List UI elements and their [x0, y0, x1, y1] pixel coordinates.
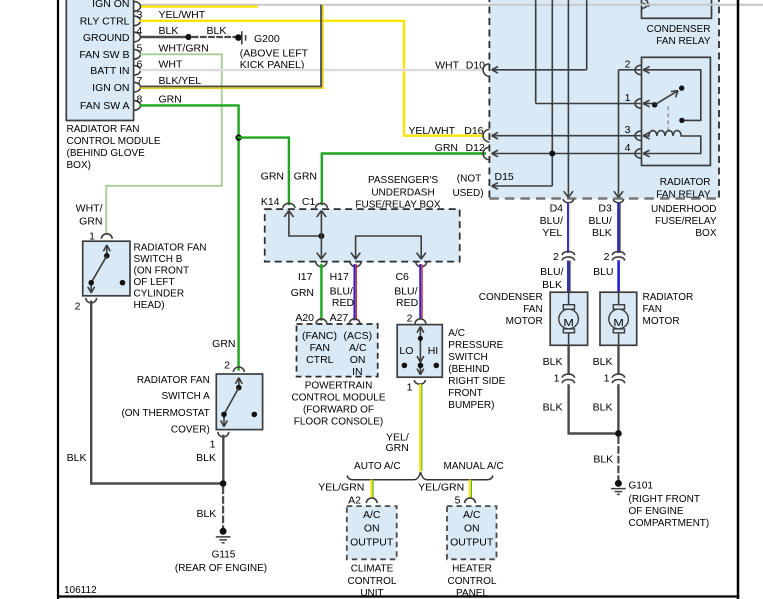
svg-text:CTRL: CTRL — [306, 354, 334, 366]
svg-text:YEL/WHT: YEL/WHT — [408, 125, 455, 137]
svg-text:FAN SW A: FAN SW A — [80, 100, 130, 112]
svg-text:BLU/: BLU/ — [540, 215, 563, 227]
svg-text:CONTROL MODULE: CONTROL MODULE — [291, 392, 385, 403]
svg-text:C1: C1 — [302, 196, 316, 208]
svg-text:RADIATOR FAN: RADIATOR FAN — [134, 243, 207, 254]
svg-text:BLK: BLK — [196, 452, 216, 464]
wire BLU/YEL D4 — [569, 204, 571, 252]
wire BLK dashed to G200 — [193, 36, 235, 38]
svg-text:(RIGHT FRONT: (RIGHT FRONT — [629, 494, 700, 505]
svg-text:A2: A2 — [348, 494, 361, 506]
svg-text:D16: D16 — [464, 125, 483, 137]
svg-text:BLK: BLK — [593, 356, 613, 368]
node on BLK pin4 — [185, 34, 191, 40]
wire YEL/GRN left branch — [371, 481, 373, 498]
svg-text:(ON THERMOSTAT: (ON THERMOSTAT — [121, 408, 209, 419]
svg-text:FAN SW B: FAN SW B — [79, 49, 129, 61]
wire WHT top over relay box — [642, 4, 763, 6]
svg-text:4: 4 — [625, 142, 631, 154]
svg-text:A/C: A/C — [349, 342, 367, 354]
svg-text:2: 2 — [75, 301, 81, 313]
svg-text:BLK: BLK — [543, 402, 563, 414]
svg-text:4: 4 — [137, 25, 143, 37]
wire WHT pin6 to D10 — [141, 69, 483, 71]
svg-text:FAN: FAN — [310, 342, 330, 354]
inline connector 2 radiator — [612, 252, 624, 261]
svg-text:RADIATOR: RADIATOR — [643, 292, 694, 303]
svg-text:IGN ON: IGN ON — [92, 82, 129, 94]
svg-text:GROUND: GROUND — [83, 32, 130, 44]
svg-text:CONDENSER: CONDENSER — [647, 24, 711, 35]
svg-text:FAN RELAY: FAN RELAY — [656, 36, 711, 47]
wire BLU to radiator motor — [617, 262, 620, 293]
svg-text:OF LEFT: OF LEFT — [134, 277, 175, 288]
svg-text:2: 2 — [224, 359, 230, 371]
connector H17 — [350, 262, 361, 267]
climate control unit caption — [348, 564, 397, 599]
svg-text:7: 7 — [137, 75, 143, 87]
svg-text:WHT: WHT — [435, 59, 459, 71]
svg-text:BLU/: BLU/ — [588, 215, 611, 227]
module caption — [67, 124, 161, 171]
svg-text:RED: RED — [332, 297, 355, 309]
wire GRN pin8 to switch A — [141, 105, 239, 369]
svg-text:3: 3 — [137, 9, 143, 21]
inline connector 1 condenser — [562, 374, 574, 383]
svg-text:BUMPER): BUMPER) — [448, 400, 494, 411]
svg-text:SWITCH: SWITCH — [448, 352, 487, 363]
connector D4 — [563, 199, 573, 203]
svg-text:D15: D15 — [495, 171, 514, 183]
svg-text:2: 2 — [407, 313, 413, 325]
svg-text:I17: I17 — [298, 271, 313, 283]
connector I17 — [316, 262, 327, 267]
wire BLK radiator to node — [617, 384, 619, 433]
svg-text:YEL/GRN: YEL/GRN — [418, 481, 464, 493]
inline connector 2 condenser — [562, 252, 574, 261]
svg-text:BLK: BLK — [67, 452, 87, 464]
svg-text:GRN: GRN — [159, 94, 182, 106]
powertrain control module U2 — [297, 324, 378, 378]
underhood fuse/relay box — [489, 0, 719, 239]
svg-text:FUSE/RELAY: FUSE/RELAY — [655, 216, 717, 227]
connector D16 — [483, 130, 489, 142]
switch B caption — [134, 243, 207, 312]
split brace — [347, 472, 493, 480]
radiator fan relay K2 — [625, 57, 711, 165]
node BLK junction right — [615, 430, 622, 437]
svg-text:(REAR OF ENGINE): (REAR OF ENGINE) — [175, 563, 267, 574]
svg-text:CONTROL: CONTROL — [448, 576, 497, 587]
wire BLU/RED H17 to A27 — [355, 265, 357, 320]
svg-text:UNDERHOOD: UNDERHOOD — [651, 204, 717, 215]
wire BLK condenser motor — [567, 345, 569, 374]
svg-text:BLK: BLK — [543, 356, 563, 368]
condenser fan relay K1 (cut) — [642, 0, 712, 47]
svg-text:BLK: BLK — [542, 279, 562, 291]
underhood internal verticals — [536, 0, 619, 196]
svg-text:(ACS): (ACS) — [344, 330, 373, 342]
svg-text:HI: HI — [428, 345, 439, 357]
svg-text:D4: D4 — [550, 203, 564, 215]
svg-text:1: 1 — [554, 372, 560, 384]
svg-text:M: M — [563, 318, 574, 329]
connector D12 — [483, 147, 489, 159]
svg-text:GRN: GRN — [435, 142, 458, 154]
svg-text:AUTO A/C: AUTO A/C — [354, 461, 401, 472]
svg-text:D3: D3 — [598, 203, 612, 215]
underhood internal wire D15 — [492, 183, 553, 190]
svg-text:A20: A20 — [295, 312, 314, 324]
svg-text:2: 2 — [625, 58, 631, 70]
svg-text:G115: G115 — [212, 550, 236, 561]
connector pin 1 pressure switch — [414, 380, 425, 384]
svg-text:ON: ON — [464, 523, 480, 535]
svg-text:BLK: BLK — [207, 25, 227, 37]
wire BLU/BLK D3 — [619, 204, 621, 252]
svg-text:RLY CTRL: RLY CTRL — [80, 16, 130, 28]
svg-text:5: 5 — [137, 43, 143, 55]
svg-text:BLU/: BLU/ — [394, 286, 417, 298]
node GRN junction — [235, 134, 241, 140]
svg-text:K14: K14 — [261, 196, 280, 208]
svg-text:3: 3 — [625, 124, 631, 136]
svg-text:1: 1 — [210, 439, 216, 451]
svg-text:BLK: BLK — [159, 25, 179, 37]
wire YEL/WHT pin3 to D16 — [141, 21, 483, 136]
wire BLK/YEL pin7 — [141, 6, 323, 89]
connector D3 — [613, 199, 623, 203]
condenser fan motor M1 — [550, 292, 587, 345]
svg-text:FAN RELAY: FAN RELAY — [656, 189, 711, 200]
svg-text:OUTPUT: OUTPUT — [450, 536, 494, 548]
svg-text:(BEHIND GLOVE: (BEHIND GLOVE — [67, 148, 146, 159]
wire YEL/GRN from pressure switch — [420, 385, 422, 471]
svg-text:BLK: BLK — [196, 508, 216, 520]
svg-text:FUSE/RELAY BOX: FUSE/RELAY BOX — [355, 199, 441, 210]
svg-text:ON: ON — [364, 523, 380, 535]
svg-text:RED: RED — [396, 297, 419, 309]
svg-text:BLK: BLK — [592, 227, 612, 239]
svg-text:USED): USED) — [452, 188, 483, 199]
wire GRN I17 to A20 — [320, 265, 322, 320]
heater control panel A/C ON OUTPUT box — [447, 506, 497, 559]
wire WHT top (cut row) — [141, 4, 763, 6]
svg-text:M: M — [613, 318, 624, 329]
svg-text:CONTROL MODULE: CONTROL MODULE — [67, 136, 161, 147]
svg-text:RADIATOR FAN: RADIATOR FAN — [137, 375, 210, 386]
svg-text:(ABOVE LEFT: (ABOVE LEFT — [240, 47, 309, 59]
svg-text:HEATER: HEATER — [452, 564, 492, 575]
module pin arcs — [134, 2, 141, 111]
svg-text:1: 1 — [604, 372, 610, 384]
passenger's underdash fuse/relay box — [265, 175, 460, 261]
svg-text:PASSENGER'S: PASSENGER'S — [368, 175, 438, 186]
svg-text:2: 2 — [604, 251, 610, 263]
a/c pressure switch S3 — [397, 325, 442, 378]
svg-text:YEL/WHT: YEL/WHT — [159, 9, 206, 21]
svg-text:A/C: A/C — [463, 509, 481, 521]
svg-text:FAN: FAN — [523, 304, 542, 315]
svg-text:D12: D12 — [466, 142, 485, 154]
svg-text:GRN: GRN — [294, 170, 317, 182]
svg-text:D10: D10 — [466, 59, 485, 71]
wire WHT/GRN pin5 to switch B — [106, 54, 221, 233]
svg-text:GRN: GRN — [385, 442, 408, 454]
wire YEL/GRN right branch — [470, 481, 472, 498]
ground G115 — [175, 528, 267, 574]
svg-text:RIGHT SIDE: RIGHT SIDE — [448, 376, 505, 387]
underhood internal wire D16-pin3 — [492, 132, 650, 139]
svg-text:CLIMATE: CLIMATE — [351, 564, 394, 575]
svg-text:HEAD): HEAD) — [134, 300, 165, 311]
svg-text:GRN: GRN — [291, 287, 314, 299]
svg-text:WHT: WHT — [159, 59, 183, 71]
pressure switch caption — [448, 328, 505, 411]
svg-text:YEL: YEL — [542, 227, 562, 239]
underhood internal wire pin2 — [619, 67, 650, 74]
underhood internal wire D10 — [492, 67, 587, 74]
page frame — [57, 0, 59, 599]
svg-text:IN: IN — [352, 366, 363, 378]
svg-text:BLU/: BLU/ — [330, 286, 353, 298]
svg-text:2: 2 — [553, 251, 559, 263]
radiator fan motor M2 — [600, 292, 637, 345]
svg-text:(FANC): (FANC) — [302, 330, 337, 342]
wire GRN branch to K14 — [239, 138, 289, 204]
svg-text:WHT/GRN: WHT/GRN — [159, 43, 209, 55]
svg-text:BLK: BLK — [593, 453, 613, 465]
svg-text:GRN: GRN — [79, 215, 102, 227]
svg-text:RADIATOR FAN: RADIATOR FAN — [67, 124, 140, 135]
wire BLK radiator motor — [617, 345, 619, 374]
svg-text:1: 1 — [407, 381, 413, 393]
wire BLK switch A pin1 — [222, 435, 224, 484]
ground G200 — [235, 31, 309, 71]
svg-text:1: 1 — [625, 92, 631, 104]
svg-text:COMPARTMENT): COMPARTMENT) — [629, 518, 710, 529]
svg-text:CYLINDER: CYLINDER — [134, 289, 185, 300]
svg-text:SWITCH A: SWITCH A — [161, 391, 210, 402]
node D12/D15 junction — [549, 151, 555, 157]
svg-text:UNDERDASH: UNDERDASH — [371, 187, 434, 198]
svg-text:MOTOR: MOTOR — [643, 316, 680, 327]
svg-text:(FORWARD OF: (FORWARD OF — [303, 404, 374, 415]
svg-text:OF ENGINE: OF ENGINE — [629, 506, 684, 517]
svg-text:BOX: BOX — [695, 228, 716, 239]
underhood internal wire pin1 — [536, 100, 650, 107]
svg-text:BLK/YEL: BLK/YEL — [159, 75, 202, 87]
climate control unit A/C ON OUTPUT box — [347, 506, 397, 559]
svg-text:106112: 106112 — [64, 585, 97, 596]
svg-text:CONDENSER: CONDENSER — [479, 292, 543, 303]
underhood internal wire D12-pin4 — [492, 150, 650, 157]
svg-text:YEL/GRN: YEL/GRN — [318, 481, 364, 493]
svg-text:G200: G200 — [254, 33, 280, 45]
svg-text:(BEHIND: (BEHIND — [448, 364, 489, 375]
arrows to D4 D3 — [564, 191, 623, 197]
wire BLU/RED C6 to pressure switch — [421, 265, 423, 318]
svg-text:G101: G101 — [629, 481, 654, 492]
svg-text:ON: ON — [350, 354, 366, 366]
svg-text:BLK: BLK — [593, 402, 613, 414]
connector D10 — [483, 64, 489, 76]
svg-text:6: 6 — [137, 59, 143, 71]
wire BLK dashed to G115 — [222, 488, 224, 528]
wire BLK pin4 — [141, 36, 189, 38]
wire BLK switch B pin2 to node — [91, 301, 220, 484]
svg-text:POWERTRAIN: POWERTRAIN — [305, 380, 373, 391]
svg-text:BLU/: BLU/ — [540, 266, 563, 278]
radiator fan switch B S1 — [83, 241, 130, 296]
svg-text:OUTPUT: OUTPUT — [350, 536, 394, 548]
svg-text:MANUAL A/C: MANUAL A/C — [443, 461, 503, 472]
svg-text:PRESSURE: PRESSURE — [448, 340, 503, 351]
svg-text:CONTROL: CONTROL — [348, 576, 397, 587]
radiator fan switch B pin 2 — [86, 298, 97, 303]
svg-text:FAN: FAN — [643, 304, 662, 315]
svg-text:(NOT: (NOT — [457, 173, 481, 184]
svg-text:A/C: A/C — [363, 509, 381, 521]
svg-text:(ON FRONT: (ON FRONT — [134, 266, 190, 277]
svg-text:5: 5 — [455, 494, 461, 506]
svg-text:A/C: A/C — [448, 328, 465, 339]
PCM caption — [291, 380, 385, 427]
svg-text:FRONT: FRONT — [448, 388, 482, 399]
svg-text:BATT IN: BATT IN — [90, 65, 129, 77]
radiator fan switch A S2 — [216, 374, 262, 430]
svg-text:8: 8 — [137, 94, 143, 106]
svg-text:A27: A27 — [330, 312, 349, 324]
svg-text:C6: C6 — [395, 271, 409, 283]
wire BLU/BLK to condenser motor — [569, 262, 571, 293]
connector C6 — [416, 262, 427, 267]
svg-text:BOX): BOX) — [67, 160, 91, 171]
switch A caption — [121, 375, 210, 435]
svg-text:MOTOR: MOTOR — [506, 316, 543, 327]
svg-text:H17: H17 — [330, 271, 349, 283]
wire GRN D12 to C1 — [322, 154, 485, 205]
svg-text:LO: LO — [399, 345, 413, 357]
heater control panel caption — [448, 564, 497, 599]
svg-text:IGN ON: IGN ON — [92, 0, 129, 10]
svg-text:COVER): COVER) — [171, 424, 210, 435]
node BLK junction — [220, 480, 227, 487]
svg-text:GRN: GRN — [212, 338, 235, 350]
svg-text:WHT/: WHT/ — [76, 202, 103, 214]
ground G101 — [611, 480, 709, 529]
svg-text:BLU: BLU — [593, 266, 613, 278]
wire BLK condenser to node — [569, 384, 615, 433]
inline connector 1 radiator — [612, 374, 624, 383]
svg-text:GRN: GRN — [261, 170, 284, 182]
radiator fan switch A pin 1 — [218, 432, 229, 437]
svg-text:SWITCH B: SWITCH B — [134, 254, 183, 265]
wire BLK dashed to G101 — [617, 438, 619, 480]
svg-text:FLOOR CONSOLE): FLOOR CONSOLE) — [294, 416, 383, 427]
svg-text:RADIATOR: RADIATOR — [660, 177, 711, 188]
radiator fan control module U1 — [66, 0, 133, 121]
passenger box internal wiring — [284, 211, 426, 259]
wire YEL top (cut row) — [141, 5, 257, 7]
